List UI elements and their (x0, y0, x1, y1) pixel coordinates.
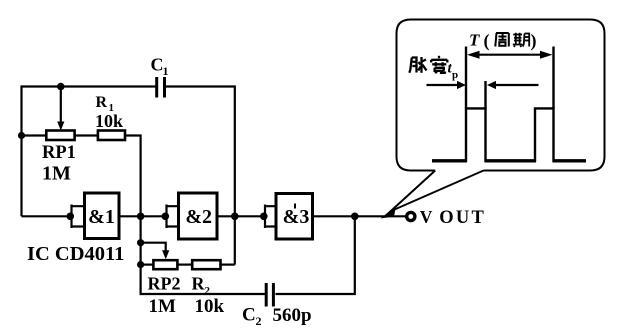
svg-text:RP1: RP1 (42, 143, 76, 163)
svg-text:V: V (420, 207, 433, 227)
svg-text:RP2: RP2 (148, 274, 181, 294)
svg-text:p: p (452, 69, 458, 81)
svg-text:OUT: OUT (439, 208, 486, 228)
svg-text:&2: &2 (185, 206, 212, 228)
svg-text:T: T (469, 31, 480, 50)
svg-text:): ) (531, 31, 537, 52)
svg-text:1M: 1M (149, 296, 177, 317)
svg-text:C: C (242, 305, 256, 326)
svg-text:10k: 10k (95, 111, 123, 131)
svg-text:&1: &1 (88, 206, 115, 228)
svg-text:560p: 560p (273, 305, 312, 326)
svg-text:R: R (192, 274, 206, 294)
svg-text:&3: &3 (283, 206, 310, 228)
svg-text:1: 1 (163, 64, 169, 78)
svg-text:(: ( (484, 31, 490, 52)
svg-text:1M: 1M (42, 163, 71, 185)
svg-text:10k: 10k (195, 296, 225, 317)
svg-text:IC CD4011: IC CD4011 (27, 243, 124, 265)
svg-text:R: R (96, 94, 108, 111)
svg-text:2: 2 (256, 314, 262, 328)
